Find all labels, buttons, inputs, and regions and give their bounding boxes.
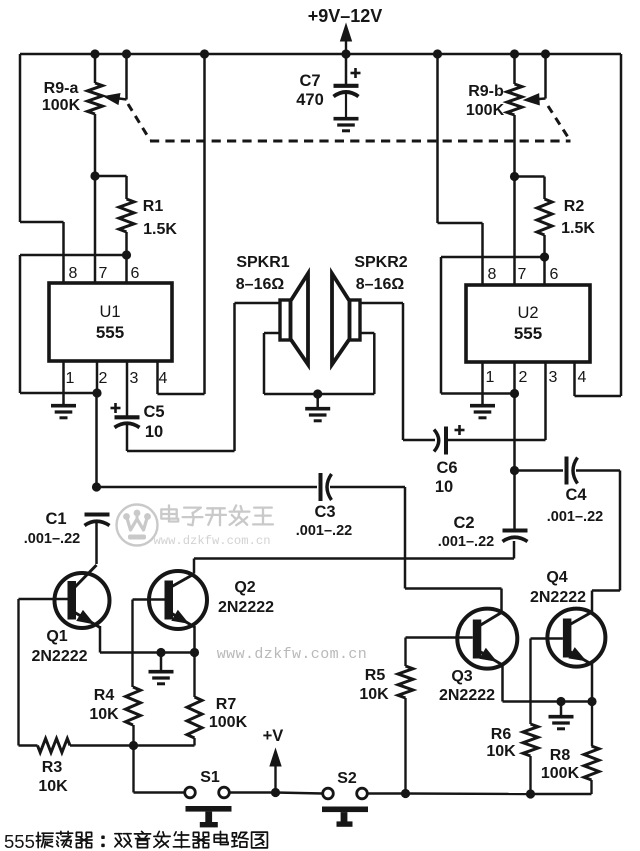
label C6 plus: [455, 425, 465, 435]
node bus2 ground tap: [556, 697, 565, 706]
wire R8 top: [591, 702, 593, 747]
svg-text:1: 1: [486, 369, 495, 386]
svg-text:R6: R6: [491, 726, 512, 743]
transistor Q4 collector: [569, 612, 592, 625]
svg-text:10K: 10K: [359, 686, 389, 703]
resistor R9-a: [88, 83, 103, 114]
node R5 rail: [401, 789, 410, 798]
node R3 R4 R7 S1: [129, 741, 138, 750]
transistor Q4 base bar: [563, 619, 572, 658]
ganging dashed link: [128, 104, 571, 141]
svg-text:2: 2: [99, 370, 108, 387]
node rail R9-a wiper: [122, 49, 131, 58]
wire U1 pin2 stub: [96, 361, 99, 393]
op U1 555 box: [49, 283, 172, 361]
svg-text:100K: 100K: [541, 765, 580, 782]
transistor Q2 base bar: [165, 581, 174, 620]
wire U1 pins2-6 tie: [20, 255, 127, 393]
+V arrow: [270, 749, 281, 793]
svg-text:www.dzkfw.com.cn: www.dzkfw.com.cn: [217, 646, 367, 663]
wire Q1 emitter down: [99, 626, 102, 653]
wire R7 top: [193, 653, 195, 698]
node rail R9-a top: [90, 49, 99, 58]
node +V tap: [271, 788, 280, 797]
wire top rail: [20, 53, 621, 56]
wire U1 pin4 to rail: [158, 54, 205, 394]
svg-text:.001–.22: .001–.22: [438, 534, 494, 550]
node U1 pin2-C1-C3: [92, 482, 101, 491]
node Q2 emitter R7: [190, 648, 199, 657]
svg-text:www.dzkfw.com.cn: www.dzkfw.com.cn: [153, 534, 270, 548]
speaker SPKR2: [332, 274, 360, 365]
capacitor C6: [434, 427, 446, 455]
svg-text:R7: R7: [216, 696, 237, 713]
ground Q1 Q2 emitters: [149, 672, 174, 684]
node rail U1 pin4 branch: [200, 49, 209, 58]
svg-text:555: 555: [4, 831, 35, 851]
wire S2 to R5: [368, 792, 406, 794]
wire S1 feed: [134, 746, 185, 793]
svg-text:100K: 100K: [42, 97, 81, 114]
wire U1 pin2 to C3: [97, 486, 318, 489]
wire speaker common bus: [264, 393, 374, 396]
svg-text:+9V–12V: +9V–12V: [308, 6, 383, 26]
wire R1 bottom lead: [125, 232, 128, 255]
transistor Q1 collector: [74, 565, 97, 588]
svg-text:1.5K: 1.5K: [561, 220, 595, 237]
capacitor C1: [85, 515, 110, 526]
speaker SPKR1: [280, 274, 308, 365]
resistor R4: [126, 687, 141, 725]
wire U2 pin8 from rail: [438, 54, 483, 286]
transistor Q1 circle: [55, 573, 110, 628]
svg-text:C1: C1: [45, 510, 66, 528]
R9-b wiper arrow: [524, 94, 539, 105]
wire R1 top lead: [95, 176, 127, 199]
resistor R8: [584, 746, 599, 780]
svg-text:C4: C4: [565, 486, 587, 504]
wire Q3 base lead: [406, 636, 473, 638]
svg-text:Q4: Q4: [546, 569, 567, 586]
svg-text:C5: C5: [143, 403, 164, 421]
node rail U2 pin8 branch: [433, 49, 442, 58]
svg-text:10K: 10K: [38, 778, 68, 795]
resistor R5: [398, 666, 413, 698]
svg-text:R3: R3: [42, 759, 63, 776]
svg-text:R2: R2: [564, 198, 585, 215]
transistor Q3 emitter: [479, 649, 503, 665]
wire Q3 emitter down: [501, 664, 504, 702]
transistor Q3 circle: [457, 609, 517, 669]
svg-text:1.5K: 1.5K: [143, 221, 177, 238]
svg-text:1: 1: [66, 370, 75, 387]
wire R9-b bottom to pin7: [513, 115, 516, 286]
watermark logo circle W: [117, 505, 158, 546]
svg-text:C3: C3: [314, 503, 335, 521]
op U2 555 box: [466, 285, 590, 362]
wire R7 bottom: [134, 738, 195, 746]
resistor R2: [537, 199, 552, 235]
node R6 rail: [526, 789, 535, 798]
svg-text:R1: R1: [143, 198, 164, 215]
svg-text:7: 7: [518, 266, 527, 283]
wire C6 left to SPKR2: [403, 439, 435, 442]
wire U1 pin1 to ground: [62, 361, 65, 404]
wire bus2 ground stub: [560, 702, 563, 716]
wire bus ground stub: [160, 653, 163, 671]
svg-text:555: 555: [96, 323, 124, 342]
svg-text:.001–.22: .001–.22: [547, 509, 603, 525]
node Q4 emitter R8: [587, 697, 596, 706]
svg-text:R9-b: R9-b: [468, 83, 504, 100]
wire +V node to S2: [276, 793, 323, 794]
wire U2 pin2 stub: [513, 362, 516, 394]
node rail R9-b top: [510, 49, 519, 58]
transistor Q2 collector: [171, 574, 194, 587]
svg-text:U1: U1: [99, 303, 120, 321]
capacitor C7: [334, 54, 359, 117]
wire U1 pin6 stub: [125, 255, 128, 284]
node R1 pin6 junction: [122, 250, 131, 259]
transistor Q2 emitter: [171, 611, 195, 627]
wire Q1 base down: [19, 599, 38, 746]
resistor R9-b: [507, 84, 522, 115]
transistor Q3 base bar: [473, 620, 482, 659]
svg-text:3: 3: [549, 369, 558, 386]
node rail R9-b wiper: [541, 49, 550, 58]
watermark text dianzikaifawang: [161, 505, 273, 525]
svg-text:2N2222: 2N2222: [31, 648, 87, 665]
svg-text:6: 6: [550, 266, 559, 283]
capacitor C5: [115, 417, 140, 427]
supply arrow: [341, 24, 352, 54]
label C5 plus: [111, 403, 121, 413]
wire SPKR1 bottom terminal: [264, 333, 280, 394]
wire R3 right: [70, 744, 134, 746]
svg-text:6: 6: [131, 265, 140, 282]
wire R9-a wiper from rail: [112, 54, 127, 100]
wire R4 bottom: [132, 725, 134, 746]
transistor Q4 circle: [547, 609, 605, 667]
node R2 pin6 junction: [540, 252, 549, 261]
wire R5 bottom: [404, 698, 406, 794]
ground C7: [334, 119, 359, 131]
wire U2 pin1 to ground: [481, 362, 484, 404]
svg-text:10K: 10K: [89, 706, 119, 723]
resistor R3: [38, 739, 71, 753]
wire C3 to Q3 collector: [330, 487, 502, 612]
capacitor C2: [503, 531, 528, 542]
wire R9-b wiper from rail: [532, 54, 546, 100]
wire C5 to SPKR1: [127, 303, 280, 451]
node U1 pin2: [92, 388, 101, 397]
wire U2 pin4 to rail: [575, 362, 622, 396]
node speaker ground: [313, 389, 322, 398]
wire U1 pin3 stub: [126, 361, 129, 416]
svg-text:4: 4: [578, 369, 587, 386]
capacitor C3: [321, 473, 332, 501]
wire C1 to Q1 collector: [95, 523, 98, 564]
wire R9-a top lead: [94, 54, 97, 83]
wire C4 left: [515, 469, 564, 472]
svg-text:4: 4: [159, 370, 168, 387]
svg-text:470: 470: [296, 91, 324, 109]
node U2 pin2-C2-C4: [510, 466, 519, 475]
transistor Q3 collector: [479, 613, 502, 627]
svg-text:SPKR1: SPKR1: [236, 254, 289, 271]
transistor Q1 emitter: [74, 611, 100, 628]
svg-text:C2: C2: [453, 514, 474, 532]
svg-text:R8: R8: [550, 747, 571, 764]
wire Q2 collector link: [194, 541, 514, 574]
wire emitter bus Q1 Q2: [100, 651, 195, 654]
svg-text:R9-a: R9-a: [44, 80, 79, 97]
node U2 pin2: [510, 389, 519, 398]
switch S1: [185, 787, 232, 827]
wire left rail drop to pin8: [20, 54, 64, 284]
svg-text:3: 3: [130, 370, 139, 387]
wire Q4 base lead: [531, 639, 563, 725]
resistor R1: [119, 199, 134, 232]
svg-text:Q3: Q3: [451, 668, 472, 685]
transistor Q2 circle: [149, 571, 207, 629]
svg-text:7: 7: [99, 265, 108, 282]
svg-text:2: 2: [519, 369, 528, 386]
wire right rail drop: [620, 54, 623, 396]
ground U1 pin1: [51, 406, 76, 418]
svg-text:8–16Ω: 8–16Ω: [356, 276, 405, 293]
wire SPKR2 bottom terminal: [360, 333, 374, 394]
svg-text:C7: C7: [299, 72, 320, 90]
resistor R7: [187, 697, 202, 738]
svg-text:SPKR2: SPKR2: [354, 254, 407, 271]
svg-text:555: 555: [514, 324, 542, 343]
svg-text:10: 10: [145, 423, 163, 441]
wire U2 pin2 node to C2: [513, 471, 516, 532]
svg-text:U2: U2: [517, 304, 538, 322]
wire R6 bottom: [529, 756, 531, 794]
transistor Q4 emitter: [569, 648, 592, 665]
switch S2: [322, 788, 368, 827]
wire R9-b top lead: [513, 54, 516, 84]
transistor Q1 base bar: [68, 581, 77, 620]
svg-text:R4: R4: [94, 687, 115, 704]
svg-text:2N2222: 2N2222: [439, 687, 495, 704]
resistor R6: [523, 724, 538, 756]
svg-text:8–16Ω: 8–16Ω: [236, 276, 285, 293]
wire Q2 emitter down: [193, 626, 196, 653]
svg-text:+V: +V: [263, 727, 284, 745]
wire SPKR2 top terminal: [360, 303, 403, 440]
svg-text:2N2222: 2N2222: [530, 589, 586, 606]
wire R9-a bottom to pin7: [94, 114, 97, 284]
node R9a-R1 junction: [90, 171, 99, 180]
svg-text:Q2: Q2: [234, 579, 255, 596]
svg-text:10: 10: [435, 478, 453, 496]
wire U2 pin2 down: [513, 394, 516, 471]
svg-text:2N2222: 2N2222: [218, 599, 274, 616]
ground speakers: [305, 409, 330, 421]
ground Q3 Q4 emitters: [549, 717, 574, 729]
wire R2 bottom lead: [543, 235, 546, 257]
wire U2 pin6 stub: [543, 257, 546, 286]
wire U1 pin2 down: [95, 393, 98, 487]
svg-text:Q1: Q1: [46, 628, 67, 645]
label C7 plus: [351, 68, 361, 78]
caption 555 oscillator: [4, 831, 267, 851]
svg-text:8: 8: [488, 266, 497, 283]
wire rail R6-R8: [531, 793, 592, 795]
wire R8 bottom: [590, 780, 592, 794]
wire Q4 emitter down: [591, 664, 594, 702]
svg-text:100K: 100K: [466, 102, 505, 119]
wire Q1 base lead: [19, 598, 68, 600]
wire C4 to Q4 collector: [576, 471, 620, 613]
wire R5 top: [404, 638, 406, 667]
capacitor C4: [567, 457, 578, 485]
svg-text:10K: 10K: [486, 743, 516, 760]
svg-text:C6: C6: [436, 459, 457, 477]
svg-text:S2: S2: [337, 770, 357, 787]
ground U2 pin1: [470, 406, 495, 418]
node rail C7: [341, 49, 350, 58]
wire rail R5-R6: [406, 792, 531, 795]
svg-text:S1: S1: [200, 769, 220, 786]
svg-text:R5: R5: [365, 667, 386, 684]
wire S1 to +V node: [230, 791, 276, 793]
wire Q2 base lead: [133, 600, 165, 688]
wire speaker ground stub: [316, 394, 319, 407]
node bus ground tap: [156, 648, 165, 657]
wire U2 pins2-6 tie: [441, 257, 545, 394]
svg-text:100K: 100K: [209, 714, 248, 731]
svg-text:.001–.22: .001–.22: [296, 523, 352, 539]
node R9b-R2 junction: [510, 172, 519, 181]
svg-text:.001–.22: .001–.22: [24, 531, 80, 547]
svg-text:8: 8: [69, 265, 78, 282]
wire emitter bus Q3 Q4: [503, 700, 593, 703]
wire C6 right to U2 pin3: [446, 362, 546, 440]
wire R2 top lead: [515, 177, 545, 200]
R9-a wiper arrow: [104, 94, 120, 105]
